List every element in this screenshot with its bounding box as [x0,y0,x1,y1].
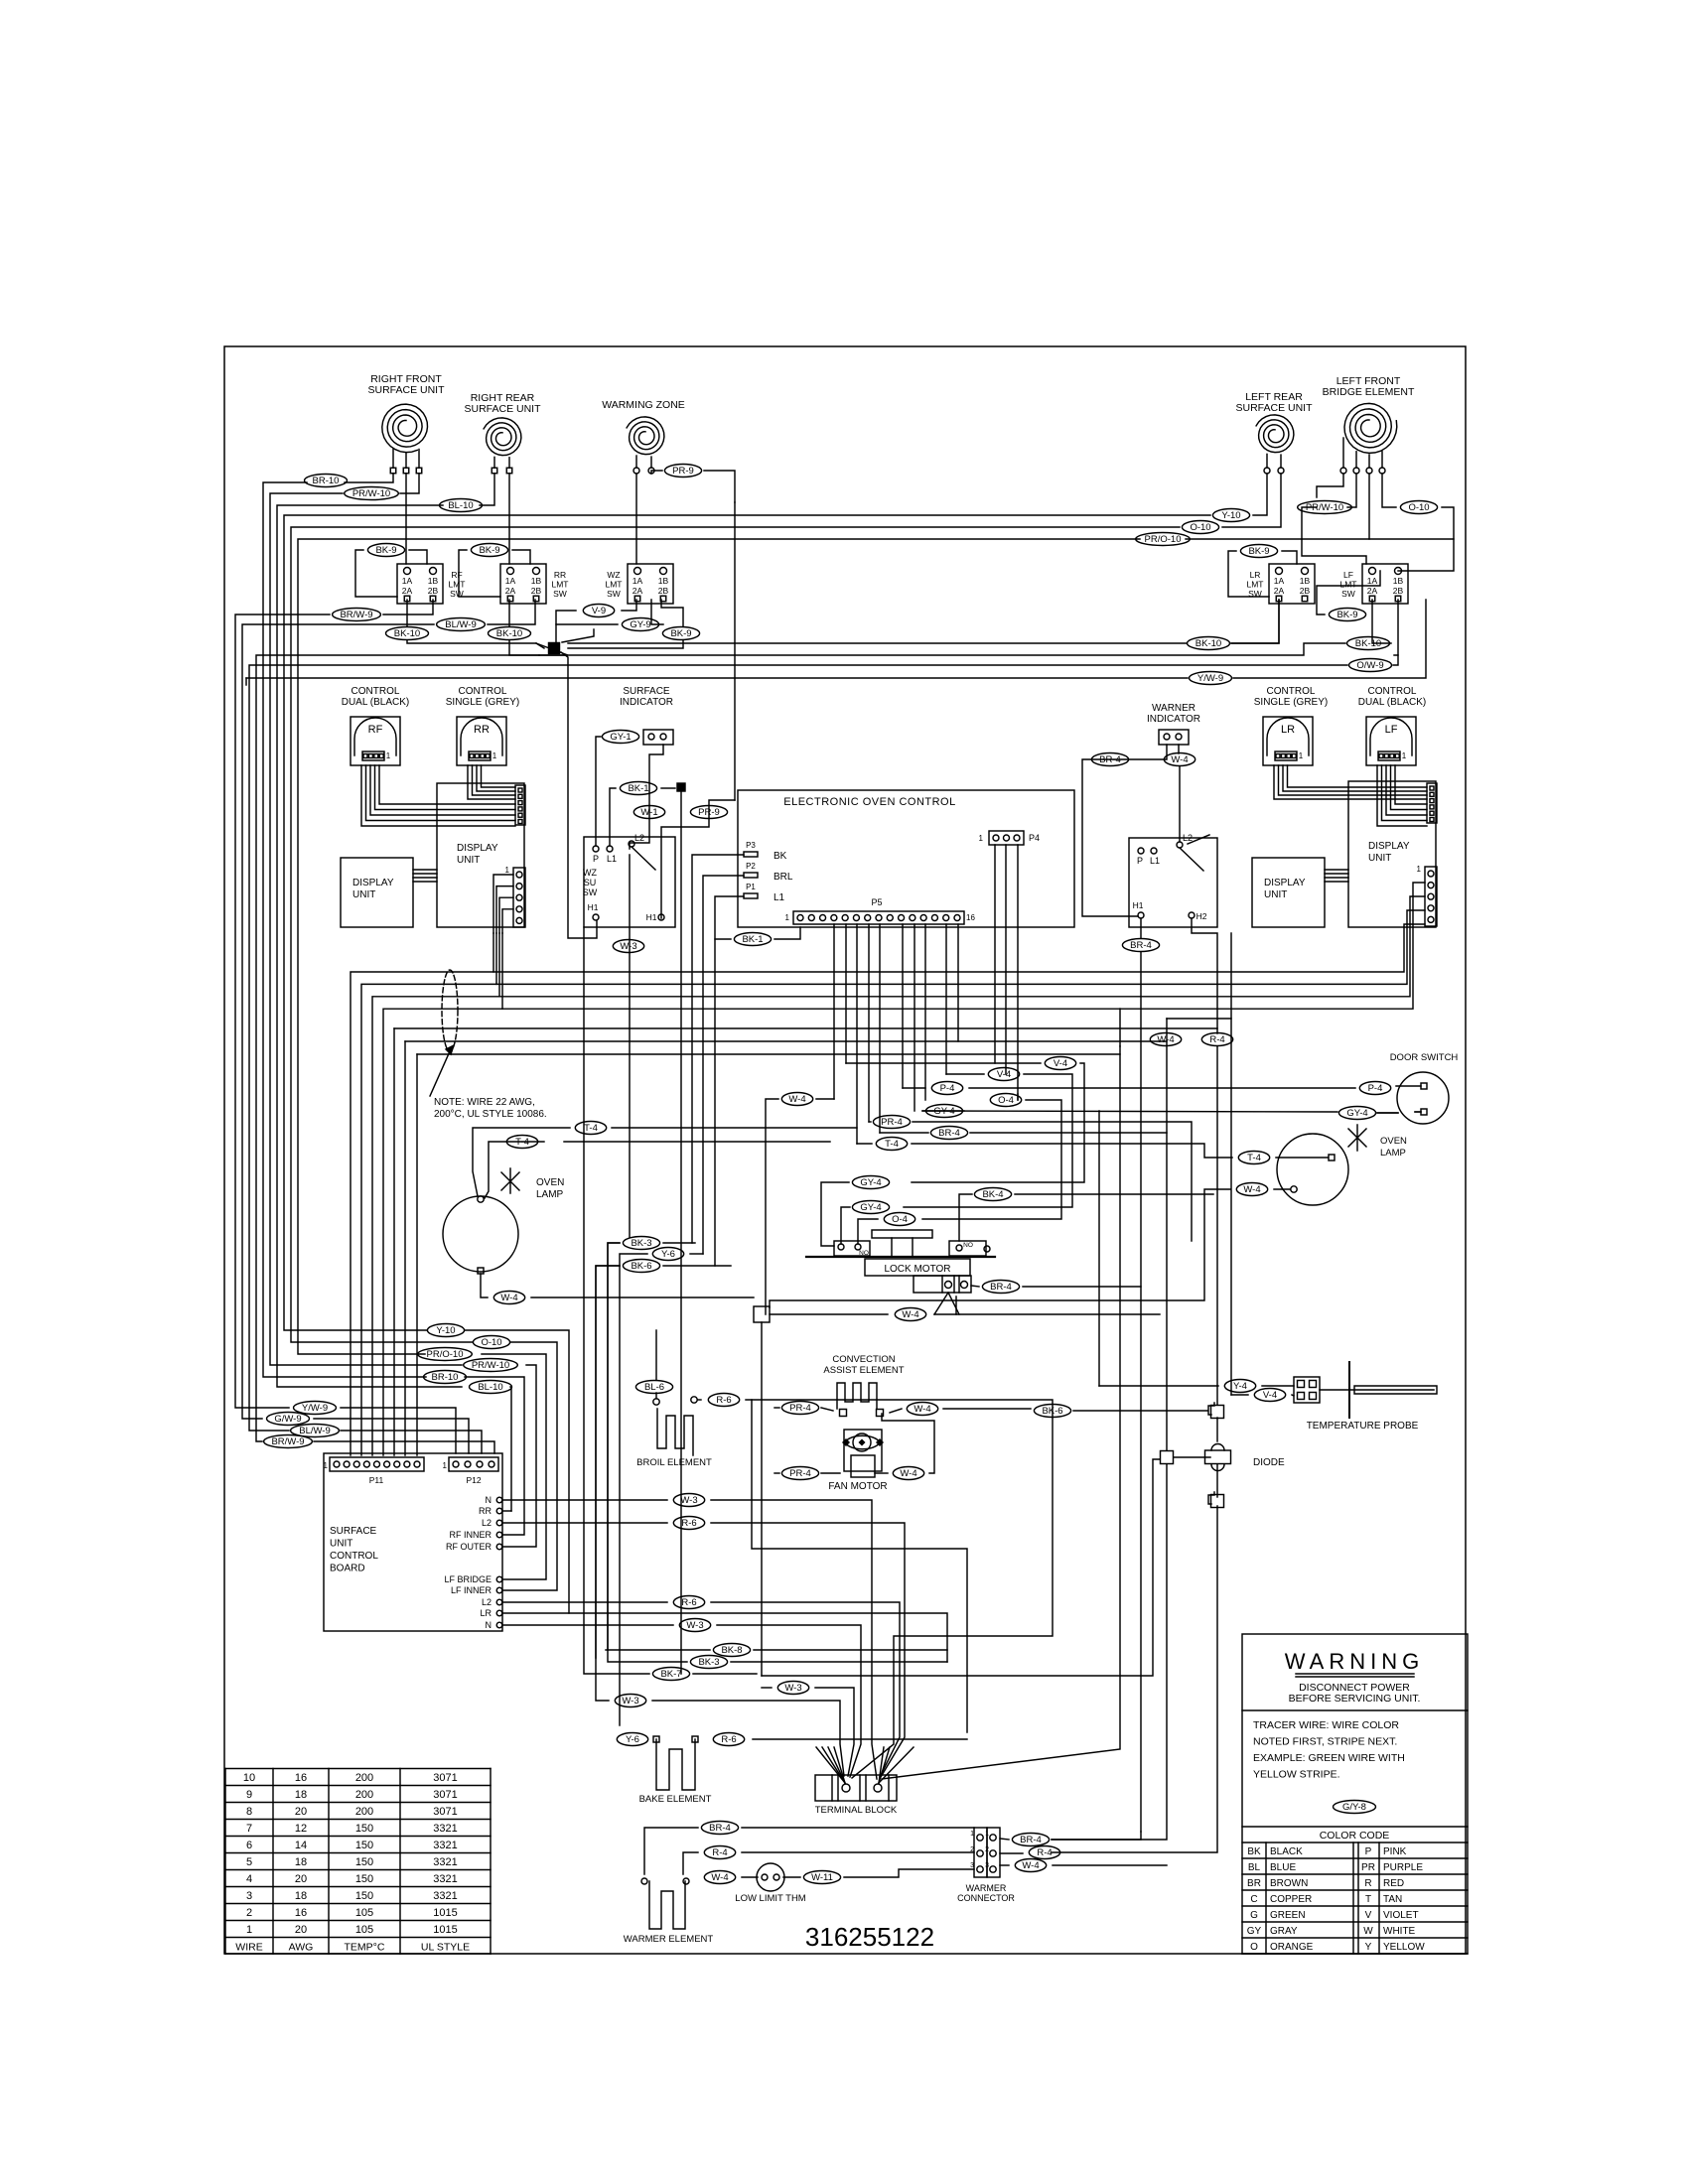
wire BR-4 row [880,1132,928,1134]
wire label V-4 a [1045,1057,1075,1070]
svg-text:GY-9: GY-9 [630,619,650,630]
svg-text:316255122: 316255122 [805,1922,934,1952]
wire label BK-9 RR [471,544,507,557]
svg-text:1: 1 [1299,751,1304,760]
wire label T-4 lamp right [1238,1152,1269,1164]
svg-text:SU: SU [584,878,597,887]
wire label BR-4 h1 [1122,939,1159,952]
coil left rear surface unit [1256,415,1294,453]
svg-text:COLOR CODE: COLOR CODE [1320,1830,1390,1842]
wire label Y-10 [1212,509,1249,522]
wire WZ sw V-9 GY-9 [622,600,636,611]
wire label GY-9 [622,618,658,631]
svg-text:FAN MOTOR: FAN MOTOR [828,1481,887,1492]
svg-text:2A: 2A [1274,586,1285,596]
svg-text:R-6: R-6 [721,1734,736,1745]
svg-text:2: 2 [246,1907,252,1919]
wire lock motor W-4 [934,1293,948,1314]
wire label V-4 probe [1254,1389,1285,1402]
limit switch LR [1269,564,1315,604]
svg-text:10: 10 [243,1772,255,1784]
color code table [1242,1826,1468,1828]
wire label PR-9 [664,465,701,478]
wire BK-9 RF hook [409,550,427,564]
svg-text:O-4: O-4 [998,1095,1014,1106]
svg-text:W-4: W-4 [1243,1184,1260,1195]
svg-text:NO: NO [859,1250,869,1257]
ribbon right [1325,869,1348,871]
wire step-downs display to P11 bundle [351,933,493,1455]
wire BK-10 bus LR [1231,600,1279,643]
warning divider [1242,1709,1468,1711]
svg-text:R: R [1364,1878,1371,1889]
svg-text:1B: 1B [428,576,439,586]
wire V-4 a row [846,1062,1041,1064]
svg-text:150: 150 [355,1856,373,1868]
svg-text:LR: LR [1250,570,1261,580]
svg-text:BK-10: BK-10 [496,628,522,639]
svg-text:R-6: R-6 [681,1597,696,1608]
wire label BR-4 w1 [701,1822,738,1835]
svg-text:20: 20 [295,1873,307,1885]
convection assist element [837,1383,877,1409]
svg-text:WARNER: WARNER [1152,703,1196,714]
svg-text:SW: SW [607,589,621,599]
svg-text:PURPLE: PURPLE [1383,1862,1423,1873]
svg-text:SW: SW [1341,589,1355,599]
svg-text:TEMP°C: TEMP°C [345,1942,385,1954]
wire display left bottom pins to steps [493,875,513,933]
wire BK-8 row [606,1649,710,1651]
wire label BK-10 lf [1347,637,1390,650]
diode symbol [1211,1444,1224,1471]
svg-text:150: 150 [355,1840,373,1851]
svg-text:BK-1: BK-1 [628,783,648,794]
svg-text:2B: 2B [658,586,669,596]
wire label R-6 l2 [673,1517,704,1530]
svg-text:Y-10: Y-10 [436,1325,455,1336]
wire gauge table [225,1768,491,1770]
wire label BK-3 b [690,1656,727,1669]
svg-text:UNIT: UNIT [352,889,375,900]
wire RR sw bottom to BK-10 bus [508,600,510,626]
svg-text:VIOLET: VIOLET [1383,1910,1419,1921]
wire BK-6 row [596,1266,620,1658]
svg-text:BK-9: BK-9 [670,628,691,639]
svg-text:P-4: P-4 [1368,1083,1383,1094]
svg-text:W-3: W-3 [622,1696,638,1706]
svg-text:W-4: W-4 [900,1468,916,1479]
svg-text:P: P [1365,1846,1372,1857]
svg-text:NO: NO [963,1242,973,1249]
svg-text:H1: H1 [1133,900,1144,910]
svg-text:1: 1 [386,751,391,760]
svg-text:BL-6: BL-6 [644,1382,664,1393]
coil right front surface unit [382,404,428,453]
wire label BR-10 [305,475,348,487]
diode lower connector [1211,1495,1224,1508]
svg-text:LR: LR [1281,724,1295,736]
wire label PR-9 b [690,806,727,819]
svg-text:UNIT: UNIT [1264,889,1287,900]
svg-text:O-4: O-4 [892,1214,908,1225]
svg-text:O-10: O-10 [1408,502,1429,513]
svg-text:Y-6: Y-6 [626,1734,639,1745]
svg-text:150: 150 [355,1873,373,1885]
svg-text:R-4: R-4 [712,1847,727,1858]
wire label R-6 bake [713,1733,744,1746]
svg-text:1: 1 [246,1924,252,1936]
svg-text:WHITE: WHITE [1383,1926,1416,1937]
wire label W-3 c [777,1682,808,1695]
svg-text:EXAMPLE: GREEN WIRE WITH: EXAMPLE: GREEN WIRE WITH [1253,1752,1405,1764]
coil warming zone [627,417,664,455]
wire label PR/W-10 right [1298,501,1352,514]
svg-text:1B: 1B [531,576,542,586]
svg-text:BK-6: BK-6 [631,1261,651,1272]
wire warmer connector right rows [1000,1839,1009,1840]
wire BK-3 rows [608,1243,620,1650]
svg-text:BLUE: BLUE [1270,1862,1296,1873]
wire warner W-4 drop [1178,745,1180,753]
wire bake R-6 row [753,1738,967,1740]
wire label W-3 nb [679,1619,710,1632]
svg-text:PR: PR [1361,1862,1375,1873]
wire label Y-4 [1224,1380,1255,1393]
svg-text:2: 2 [985,1846,989,1853]
svg-text:SURFACE: SURFACE [330,1526,377,1537]
svg-text:1: 1 [985,1831,989,1838]
svg-text:BK: BK [1247,1846,1261,1857]
EOC connector P4 [989,831,1024,845]
wire label BK-6 [623,1260,659,1273]
svg-text:P3: P3 [746,841,756,850]
svg-text:BR-4: BR-4 [1130,940,1152,951]
wire label PR/O-10 mid [418,1348,473,1361]
svg-text:BK-8: BK-8 [721,1645,742,1656]
wire label T-4 b [506,1136,537,1149]
svg-text:3: 3 [985,1862,989,1869]
svg-text:H1: H1 [588,902,599,912]
svg-text:3321: 3321 [433,1873,457,1885]
svg-text:CONTROL: CONTROL [352,686,400,697]
wire junction X left [536,643,568,655]
lock motor cam [872,1230,932,1238]
wire label R-4 w1 [704,1846,735,1859]
svg-text:BL: BL [1248,1862,1261,1873]
wire LR control bundle [1274,765,1427,799]
wire P-4 door row [903,1087,925,1089]
svg-text:BK-9: BK-9 [1248,546,1269,557]
svg-text:1B: 1B [1393,576,1404,586]
svg-text:18: 18 [295,1890,307,1902]
wire terminal diag extra [882,1046,1120,1779]
svg-text:20: 20 [295,1924,307,1936]
svg-text:200: 200 [355,1806,373,1818]
diode connector sq [1211,1406,1224,1419]
wire O-4 row [1017,1094,1019,1100]
WZ SU SW relay box [584,837,675,927]
svg-text:LR: LR [480,1608,492,1618]
lock motor switch left [834,1241,870,1256]
svg-text:BAKE ELEMENT: BAKE ELEMENT [639,1794,712,1805]
terminal block [815,1775,897,1801]
svg-text:PR-9: PR-9 [672,466,694,477]
svg-text:UL STYLE: UL STYLE [421,1942,470,1954]
svg-text:W-3: W-3 [686,1620,703,1631]
surface indicator lamp box [643,730,673,745]
svg-text:PR/W-10: PR/W-10 [352,488,390,499]
svg-text:20: 20 [295,1806,307,1818]
svg-text:1: 1 [492,751,497,760]
svg-text:3: 3 [970,1862,974,1869]
wire SUCB RR row [502,1510,511,1512]
wire coil LF pins [1317,474,1343,497]
door switch [1397,1072,1449,1124]
svg-text:BK-9: BK-9 [375,545,396,556]
svg-text:200°C, UL STYLE 10086.: 200°C, UL STYLE 10086. [434,1109,547,1120]
svg-text:1: 1 [970,1831,974,1838]
wire label W-4 lamp left [493,1292,524,1304]
svg-text:ASSIST ELEMENT: ASSIST ELEMENT [823,1365,904,1376]
wire label W-4 warner [1164,753,1195,766]
wire V-4 b row [946,1073,984,1075]
wire label V-4 b [988,1068,1019,1081]
svg-text:V: V [1365,1910,1372,1921]
EOC pin P2 BRL [744,873,758,878]
wire label BL/W-9 [437,618,486,631]
svg-text:2A: 2A [633,586,643,596]
wire label P-4 door [1359,1082,1390,1095]
wire label BR/W-9 mid [264,1435,313,1448]
svg-text:SW: SW [553,589,567,599]
svg-text:O/W-9: O/W-9 [1356,660,1383,671]
svg-text:RR: RR [474,724,490,736]
svg-text:TRACER WIRE: WIRE COLOR: TRACER WIRE: WIRE COLOR [1253,1719,1399,1731]
wire label PR-4 fan [781,1467,818,1480]
svg-text:RR: RR [554,570,566,580]
wire RF/RR control bundle to display top connector [361,765,515,826]
svg-text:3321: 3321 [433,1856,457,1868]
svg-text:W-4: W-4 [1022,1860,1039,1871]
svg-text:GY-4: GY-4 [1346,1108,1367,1119]
wire label O-4 lock [884,1213,914,1226]
svg-text:R-4: R-4 [1209,1034,1224,1045]
oven lamp right [1277,1134,1348,1205]
wire SUCB N2 row [502,1624,673,1626]
wire warmer W-4 row [742,1876,758,1878]
svg-text:RF OUTER: RF OUTER [446,1542,492,1552]
svg-text:L1: L1 [774,892,785,903]
wire BK-10 bus LF [1372,600,1391,643]
svg-text:3071: 3071 [433,1789,457,1801]
wire label BR-10 mid [424,1371,467,1384]
svg-text:WZ: WZ [607,570,620,580]
wire W-3 c row [762,1687,772,1689]
coil left front bridge element [1344,403,1397,453]
svg-text:LOW LIMIT THM: LOW LIMIT THM [735,1893,806,1904]
svg-text:CONTROL: CONTROL [330,1551,378,1562]
wire label W-4 wc [1015,1859,1046,1872]
svg-text:NOTE: WIRE 22 AWG,: NOTE: WIRE 22 AWG, [434,1097,535,1108]
svg-text:LMT: LMT [1340,580,1357,590]
relay switch arm [632,847,655,870]
svg-text:1B: 1B [1300,576,1311,586]
svg-text:L2: L2 [482,1597,492,1607]
oven lamp left star [501,1168,519,1193]
warmer connector [974,1828,987,1877]
svg-text:BR-4: BR-4 [938,1128,960,1139]
svg-text:200: 200 [355,1789,373,1801]
wire label BK-1 eoc [734,933,771,946]
svg-text:COPPER: COPPER [1270,1894,1312,1905]
svg-text:3321: 3321 [433,1840,457,1851]
wire WZ PR-9 drop [734,502,736,800]
wire label Y-6 mid [652,1248,683,1261]
wire broil BL-6 drop [655,1330,657,1380]
svg-text:TERMINAL BLOCK: TERMINAL BLOCK [815,1805,898,1816]
svg-text:8: 8 [246,1806,252,1818]
svg-text:BROWN: BROWN [1270,1878,1308,1889]
svg-text:6: 6 [246,1840,252,1851]
svg-text:Y/W-9: Y/W-9 [1197,673,1223,684]
svg-text:16: 16 [295,1772,307,1784]
svg-text:O-10: O-10 [481,1337,501,1348]
wire label W-4 mid [781,1093,812,1106]
svg-text:DISPLAY: DISPLAY [1368,841,1410,852]
wire label O-10 mid [473,1336,509,1349]
svg-text:LAMP: LAMP [536,1189,564,1200]
svg-text:T-4: T-4 [1247,1153,1261,1163]
wire label O-4 a [990,1094,1021,1107]
svg-text:WIRE: WIRE [235,1942,262,1954]
svg-text:L2: L2 [482,1518,492,1528]
warmer element [649,1881,685,1929]
wire coil WZ pins [635,474,637,564]
display unit left small [341,858,413,927]
junction node X [549,643,560,654]
svg-text:DISPLAY: DISPLAY [457,843,498,854]
svg-text:1A: 1A [402,576,413,586]
wire label G/W-9 [267,1413,310,1426]
wire junction diode row [1174,1456,1210,1458]
svg-text:2A: 2A [1367,586,1378,596]
border frame [224,346,1466,1954]
coil right rear surface unit [484,418,521,456]
svg-text:105: 105 [355,1924,373,1936]
svg-text:LF: LF [1343,570,1353,580]
svg-text:GY-4: GY-4 [860,1202,881,1213]
wire label Y/W-9 top [1190,672,1232,685]
wire warmer BR-4 row [644,1828,698,1874]
svg-text:BRIDGE ELEMENT: BRIDGE ELEMENT [1323,386,1415,398]
svg-text:1A: 1A [1367,576,1378,586]
junction sq diode [1161,1451,1174,1464]
svg-text:3: 3 [246,1890,252,1902]
svg-text:ORANGE: ORANGE [1270,1942,1314,1953]
wire BK-1 to node [661,787,675,789]
wire label O-10 [1182,521,1218,534]
wire label T-4 a [575,1122,606,1135]
wire label Y/W-9 [294,1402,337,1415]
svg-text:LF: LF [1385,724,1398,736]
wire label W-4 fan [893,1467,923,1480]
limit switch RR [500,564,546,604]
connector P11 [330,1457,424,1471]
wire SUCB N row [502,1499,667,1501]
svg-text:SURFACE UNIT: SURFACE UNIT [464,403,541,415]
svg-text:2B: 2B [1393,586,1404,596]
wire P5 drops [833,924,835,1099]
svg-text:LMT: LMT [606,580,623,590]
svg-text:PR/W-10: PR/W-10 [472,1360,509,1371]
wire BK-9 LR hook [1282,551,1297,564]
wire label P-4 a [931,1082,962,1095]
broil element [657,1409,693,1455]
wire Y-6 row [620,1254,647,1725]
svg-text:W-4: W-4 [1157,1034,1174,1045]
svg-text:1A: 1A [505,576,516,586]
svg-text:LMT: LMT [449,580,466,590]
svg-text:1: 1 [443,1461,448,1470]
wire label BK-10 b [489,627,531,640]
wire GY-4 door row [922,1110,964,1112]
wire label BK-10 a [386,627,429,640]
wire label BK-9 wz [662,627,699,640]
svg-text:BR: BR [1247,1878,1261,1889]
svg-text:R-4: R-4 [1037,1847,1052,1858]
wire EOC P1 left [715,896,744,1266]
svg-text:150: 150 [355,1890,373,1902]
svg-text:2B: 2B [428,586,439,596]
svg-text:GRAY: GRAY [1270,1926,1298,1937]
wire label PR/O-10 [1136,533,1191,546]
wire label BK-8 [713,1644,750,1657]
fan motor [844,1430,882,1471]
svg-text:CONTROL: CONTROL [459,686,507,697]
wire BK-7 row [693,1673,757,1675]
wire label R-4 h2 [1201,1033,1232,1046]
svg-text:RR: RR [479,1506,492,1516]
svg-text:G/W-9: G/W-9 [274,1414,301,1425]
wire junction X right [562,629,594,642]
wire LF control bundle [1377,765,1427,826]
svg-text:V-4: V-4 [1054,1058,1067,1069]
wire x1128 vertical top [1119,1009,1121,1046]
wire label BR/W-9 [333,609,381,621]
wire label W-3 wz [613,940,643,953]
svg-text:PR/O-10: PR/O-10 [1145,534,1182,545]
svg-text:DUAL (BLACK): DUAL (BLACK) [342,697,410,708]
wire label BL-10 mid [470,1381,512,1394]
svg-text:UNIT: UNIT [1368,853,1391,864]
wire label R-6 l2b [673,1596,704,1609]
svg-text:DISPLAY: DISPLAY [352,878,394,888]
svg-text:P11: P11 [369,1475,384,1485]
svg-text:OVEN: OVEN [536,1177,564,1188]
svg-text:INDICATOR: INDICATOR [1147,714,1200,725]
svg-text:W-3: W-3 [620,941,636,952]
svg-text:RF: RF [368,724,383,736]
svg-text:Y-4: Y-4 [1233,1381,1247,1392]
svg-text:P2: P2 [746,862,756,871]
svg-text:WARMER ELEMENT: WARMER ELEMENT [624,1934,714,1945]
svg-text:12: 12 [295,1823,307,1835]
svg-text:BK-4: BK-4 [982,1189,1003,1200]
wire label BK-4 [974,1188,1011,1201]
EOC pin P3 BK [744,852,758,857]
wire T-4 left rows [473,1128,570,1196]
